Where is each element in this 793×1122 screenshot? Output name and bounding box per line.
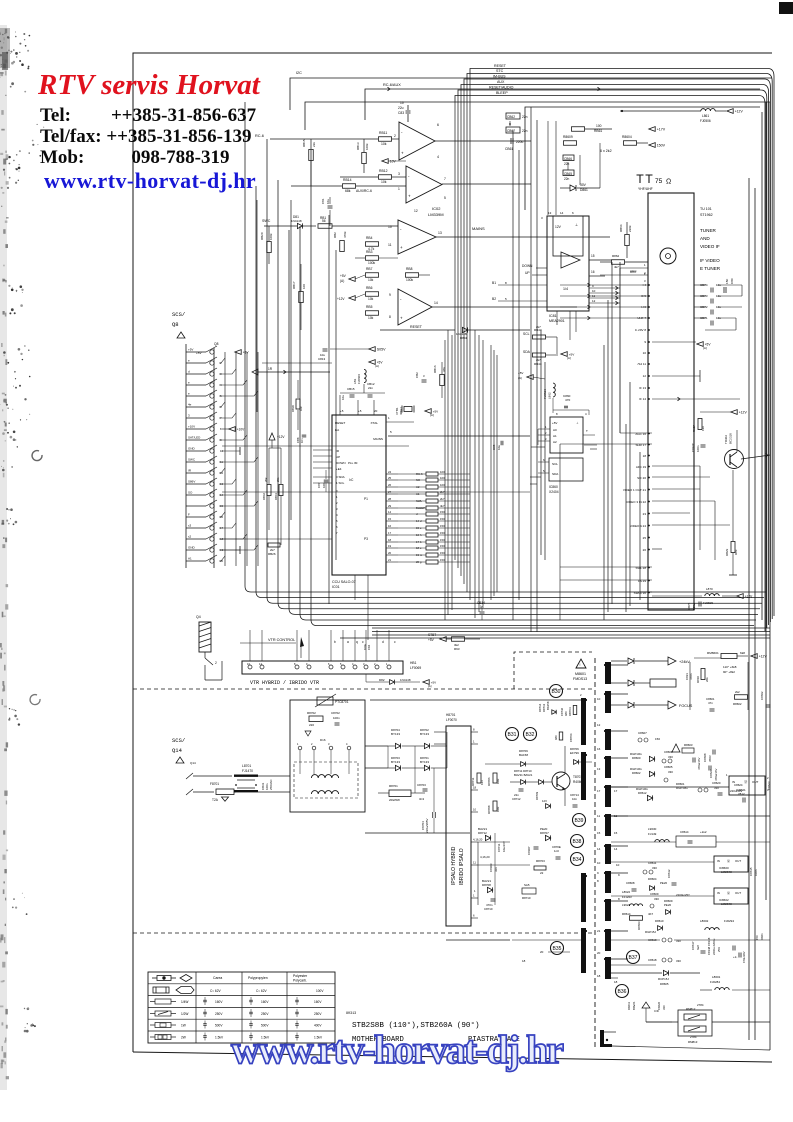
svg-text:9: 9 bbox=[592, 284, 594, 288]
svg-text:CB61: CB61 bbox=[505, 147, 513, 151]
power arrow +5V (A) sda bbox=[561, 352, 567, 357]
svg-text:SA5: SA5 bbox=[524, 883, 530, 887]
legend row 2W inner bbox=[158, 1035, 162, 1039]
svg-text:RM812: RM812 bbox=[686, 1007, 696, 1011]
svg-text:LF0070: LF0070 bbox=[446, 718, 457, 722]
pin 2 VTR strip bbox=[375, 665, 379, 669]
svg-text:IF VIDEO: IF VIDEO bbox=[700, 258, 720, 263]
svg-text:RB15: RB15 bbox=[302, 139, 306, 147]
svg-text:B30: B30 bbox=[552, 689, 561, 695]
gnd degauss bbox=[305, 731, 311, 736]
connector Q8 contact row 2 e bbox=[186, 362, 206, 364]
svg-text:B38: B38 bbox=[573, 839, 582, 845]
svg-text:100: 100 bbox=[596, 124, 602, 128]
svg-text:470: 470 bbox=[565, 398, 570, 402]
svg-text:RB7: RB7 bbox=[366, 267, 373, 271]
svg-text:SHR 17: SHR 17 bbox=[635, 443, 646, 447]
legend row 2W bbox=[155, 1035, 171, 1040]
connector Q8 contact row 7 3 bbox=[186, 417, 206, 419]
svg-text:CB15: CB15 bbox=[347, 387, 355, 391]
transistor Q TR302 BC2318 bbox=[725, 450, 744, 469]
pin 8 VTR strip bbox=[295, 665, 299, 669]
svg-text:DOWN: DOWN bbox=[336, 461, 346, 465]
svg-text:220u/40V: 220u/40V bbox=[730, 789, 742, 793]
svg-text:8: 8 bbox=[473, 728, 475, 732]
focus block bbox=[650, 679, 676, 687]
degauss coil box bbox=[290, 700, 365, 812]
svg-text:2k7: 2k7 bbox=[536, 325, 541, 329]
svg-text:D8709: D8709 bbox=[535, 791, 539, 800]
svg-text:C813: C813 bbox=[318, 357, 326, 361]
svg-text:1/4W: 1/4W bbox=[181, 1000, 188, 1004]
svg-text:100: 100 bbox=[302, 284, 306, 289]
svg-text:1: 1 bbox=[336, 495, 338, 499]
svg-text:A2: A2 bbox=[553, 440, 557, 444]
svg-text:RCP15J: RCP15J bbox=[658, 977, 669, 981]
svg-text:470n: 470n bbox=[689, 673, 693, 680]
svg-text:1: 1 bbox=[726, 773, 728, 777]
svg-text:1R: 1R bbox=[268, 367, 273, 371]
svg-text:YHF/UHF: YHF/UHF bbox=[638, 187, 653, 191]
resistor RB16 47k bbox=[440, 375, 445, 386]
svg-text:+12V: +12V bbox=[739, 411, 748, 415]
power arrow +10V connector bbox=[229, 427, 235, 432]
svg-text:470u/16V: 470u/16V bbox=[742, 951, 746, 963]
svg-text:[A]: [A] bbox=[430, 413, 434, 417]
svg-text:SAT/LED: SAT/LED bbox=[188, 436, 201, 440]
resistor R8711 vertical bbox=[477, 773, 481, 783]
degauss winding 1 bbox=[311, 775, 338, 778]
svg-text:D8708: D8708 bbox=[482, 883, 491, 887]
warning triangle 2 bbox=[672, 744, 680, 752]
svg-text:19: 19 bbox=[388, 544, 392, 548]
resistor R8602 2k2 bbox=[735, 695, 748, 700]
svg-text:e: e bbox=[188, 392, 190, 396]
wire tr302 out bbox=[736, 430, 738, 452]
svg-text:BY133: BY133 bbox=[420, 760, 429, 764]
svg-text:4k7: 4k7 bbox=[440, 504, 445, 508]
pin 16 VTR strip bbox=[248, 665, 252, 669]
capacitor CB8 10n bbox=[302, 434, 307, 436]
svg-text:C8710: C8710 bbox=[484, 907, 493, 911]
node B36 bbox=[616, 985, 629, 998]
svg-text:10: 10 bbox=[400, 101, 404, 105]
legend row 1W inner bbox=[160, 1023, 166, 1027]
wire opamp1 out bbox=[435, 140, 531, 142]
svg-text:160V: 160V bbox=[261, 1000, 269, 1004]
svg-text:8: 8 bbox=[597, 879, 599, 883]
wire video out rail bbox=[699, 466, 701, 550]
wire bus line 1 top bbox=[470, 69, 774, 617]
node B34 bbox=[571, 853, 584, 866]
legend row 1/4W bbox=[155, 999, 171, 1004]
svg-text:100n: 100n bbox=[696, 445, 700, 452]
svg-text:4: 4 bbox=[336, 513, 338, 517]
svg-text:26: 26 bbox=[388, 483, 392, 487]
tuner antenna circle bbox=[660, 248, 676, 264]
svg-text:SIF 20: SIF 20 bbox=[637, 476, 646, 480]
svg-text:24: 24 bbox=[388, 470, 392, 474]
svg-text:25: 25 bbox=[388, 476, 392, 480]
svg-text:CB706: CB706 bbox=[569, 733, 573, 742]
svg-text:150: 150 bbox=[440, 517, 445, 521]
label SA5 R8710 bbox=[522, 888, 536, 894]
op-amp IC02d bbox=[398, 289, 432, 325]
resistor RB6 10k bbox=[366, 292, 379, 297]
wire sec rail 816 bbox=[611, 815, 770, 817]
svg-text:SCL: SCL bbox=[552, 462, 558, 466]
svg-text:4: 4 bbox=[437, 155, 439, 159]
wire sda join bbox=[556, 337, 558, 354]
svg-text:VTR HYBRID / IBRIDO VTR: VTR HYBRID / IBRIDO VTR bbox=[250, 680, 319, 686]
svg-text:1: 1 bbox=[474, 889, 476, 893]
svg-text:C8608: C8608 bbox=[626, 881, 635, 885]
svg-text:MEA2901: MEA2901 bbox=[549, 319, 565, 323]
svg-text:15: 15 bbox=[388, 517, 392, 521]
wire swc bbox=[264, 225, 297, 227]
svg-text:C8611: C8611 bbox=[648, 861, 657, 865]
svg-text:13: 13 bbox=[548, 211, 552, 215]
svg-text:14: 14 bbox=[597, 847, 601, 851]
transformer core dashed line bbox=[594, 658, 596, 1048]
resistor R8614 4K7 bbox=[630, 916, 643, 921]
svg-text:100k: 100k bbox=[269, 233, 273, 240]
fuse F8701 T2A bbox=[216, 789, 234, 795]
wire opamp2 out bbox=[442, 183, 531, 185]
rm box bbox=[678, 1010, 712, 1036]
svg-text:20k: 20k bbox=[705, 677, 709, 682]
svg-text:10k: 10k bbox=[381, 142, 387, 146]
ic IC8600 LM2940 bbox=[714, 856, 748, 872]
pin 9 VTR strip bbox=[307, 665, 311, 669]
svg-text:IN: IN bbox=[717, 859, 720, 863]
svg-text:R8603: R8603 bbox=[684, 743, 693, 747]
svg-text:P1: P1 bbox=[364, 497, 368, 501]
wire b35 drop bbox=[494, 833, 496, 905]
resistor RB7 10k bbox=[366, 273, 379, 278]
resistor R862 4k7 bbox=[612, 260, 625, 265]
svg-text:1N4148: 1N4148 bbox=[400, 678, 411, 682]
power arrow +5V (A) x2404 bbox=[527, 375, 533, 380]
gnd symbol q14 bbox=[222, 797, 229, 801]
wire q4 contact bbox=[205, 652, 213, 665]
svg-text:e: e bbox=[188, 359, 190, 363]
svg-text:L9624: L9624 bbox=[622, 903, 630, 907]
svg-text:C8612: C8612 bbox=[667, 869, 671, 878]
svg-text:3n3: 3n3 bbox=[419, 797, 424, 801]
svg-text:CCU SALO-07: CCU SALO-07 bbox=[332, 580, 356, 584]
wire opamp3 out bbox=[436, 236, 610, 238]
svg-text:RB3: RB3 bbox=[366, 250, 373, 254]
svg-text:18: 18 bbox=[643, 454, 647, 458]
watermark Tel line bbox=[40, 105, 256, 127]
page frame of schematic sheet bbox=[133, 53, 772, 1052]
wire top centre verticals bbox=[547, 121, 549, 215]
svg-text:+5V: +5V bbox=[431, 681, 436, 685]
svg-text:(A): (A) bbox=[518, 376, 522, 380]
svg-text:C832C: C832C bbox=[691, 443, 695, 452]
connector Q8 contact row 10 GND bbox=[186, 450, 206, 452]
svg-text:M8601: M8601 bbox=[575, 672, 586, 676]
svg-text:100k: 100k bbox=[406, 278, 414, 282]
svg-text:80313: 80313 bbox=[346, 1012, 356, 1016]
svg-text:1/2W: 1/2W bbox=[181, 1012, 188, 1016]
svg-text:C8605: C8605 bbox=[664, 765, 673, 769]
connector Q8 contact row 1 +5V bbox=[186, 351, 206, 353]
wire extra mid-left verticals bbox=[256, 200, 258, 412]
resistor array RB21-RB28 rows bbox=[386, 473, 398, 475]
wire transformer secondary stubs bbox=[611, 664, 628, 666]
svg-text:20: 20 bbox=[597, 951, 601, 955]
svg-text:BAV21 BAV21: BAV21 BAV21 bbox=[514, 773, 533, 777]
svg-text:D8612: D8612 bbox=[638, 791, 647, 795]
wire long rows from connector bbox=[222, 445, 409, 447]
power arrow 150V bbox=[649, 143, 655, 148]
svg-text:C8614: C8614 bbox=[680, 830, 689, 834]
node B31 bbox=[506, 728, 519, 741]
svg-text:RB41: RB41 bbox=[274, 493, 278, 500]
svg-text:R83: R83 bbox=[734, 549, 738, 555]
legend row1 resistor symbol bbox=[152, 976, 176, 981]
svg-text:1k4: 1k4 bbox=[480, 780, 484, 785]
wire lower left rails bbox=[478, 841, 510, 843]
svg-text:8: 8 bbox=[505, 281, 507, 285]
capacitor CB61 220u bbox=[510, 138, 512, 144]
svg-text:2784: 2784 bbox=[690, 1035, 697, 1039]
legend row 1/2W bbox=[155, 1011, 171, 1016]
dashed boundary below VTR bbox=[133, 688, 592, 690]
wire right area verticals bbox=[619, 268, 621, 433]
svg-text:250V: 250V bbox=[261, 1012, 269, 1016]
svg-text:8: 8 bbox=[556, 412, 558, 416]
svg-text:FMDS13: FMDS13 bbox=[573, 677, 587, 681]
svg-text:2: 2 bbox=[215, 661, 217, 665]
bottom left black corner mark bbox=[600, 1030, 604, 1047]
svg-text:AFC 19: AFC 19 bbox=[636, 465, 647, 469]
svg-text:C8712: C8712 bbox=[512, 797, 521, 801]
svg-text:IN: IN bbox=[717, 891, 720, 895]
scan curl mark 2 bbox=[30, 695, 40, 705]
node B37 bbox=[627, 951, 640, 964]
svg-text:PTC8701: PTC8701 bbox=[335, 700, 349, 704]
svg-text:LM2940: LM2940 bbox=[721, 870, 732, 874]
wire right vertical 1 bbox=[748, 178, 750, 1040]
capacitor CB15 10u bbox=[350, 394, 355, 396]
svg-text:RB16: RB16 bbox=[433, 365, 437, 373]
svg-text:SO: SO bbox=[188, 491, 193, 495]
svg-text:10V: 10V bbox=[390, 160, 397, 164]
svg-text:3: 3 bbox=[336, 507, 338, 511]
resistor R8603 bbox=[682, 748, 694, 753]
connector Q8 contact row 5 e bbox=[186, 395, 206, 397]
svg-text:RB2: RB2 bbox=[333, 232, 337, 238]
svg-text:PE20: PE20 bbox=[664, 903, 671, 907]
svg-text:14: 14 bbox=[614, 847, 618, 851]
svg-text:C8617: C8617 bbox=[691, 941, 695, 950]
svg-text:FJ0506: FJ0506 bbox=[700, 119, 711, 123]
capacitor C8703 3n3 bbox=[423, 788, 428, 790]
dashed isolation boundary lower bbox=[133, 932, 592, 934]
svg-text:H8701: H8701 bbox=[446, 713, 456, 717]
svg-text:A1: A1 bbox=[553, 434, 557, 438]
svg-text:21: 21 bbox=[597, 929, 601, 933]
svg-text:47k: 47k bbox=[442, 367, 446, 372]
svg-text:6k8: 6k8 bbox=[740, 651, 745, 655]
svg-text:-: - bbox=[400, 227, 402, 232]
tuner pin 1 bbox=[620, 267, 648, 269]
svg-text:16: 16 bbox=[597, 747, 601, 751]
scan mark top right corner bbox=[779, 2, 793, 14]
connector Q8 contact row 8 +10V bbox=[186, 428, 206, 430]
svg-text:330: 330 bbox=[714, 786, 719, 790]
svg-text:100k: 100k bbox=[368, 261, 376, 265]
svg-text:RGP10G: RGP10G bbox=[676, 786, 688, 790]
svg-text:470u/16V: 470u/16V bbox=[697, 758, 701, 770]
svg-text:FJ0284: FJ0284 bbox=[710, 980, 720, 984]
resistor RB1 56 bbox=[318, 224, 332, 229]
svg-text:9: 9 bbox=[644, 340, 646, 344]
svg-text:T8701: T8701 bbox=[573, 775, 582, 779]
svg-text:(A): (A) bbox=[375, 364, 379, 368]
svg-text:150: 150 bbox=[440, 544, 445, 548]
svg-text:12V: 12V bbox=[555, 225, 562, 229]
node B30 bbox=[550, 685, 563, 698]
svg-text:10u: 10u bbox=[341, 395, 345, 400]
svg-text:23: 23 bbox=[643, 512, 647, 516]
svg-text:100: 100 bbox=[440, 476, 445, 480]
svg-text:10k: 10k bbox=[368, 316, 374, 320]
svg-text:+12V: +12V bbox=[735, 110, 744, 114]
svg-text:4K7: 4K7 bbox=[648, 912, 654, 916]
svg-text:[A]: [A] bbox=[428, 684, 432, 688]
power arrow +5V (A) tuner bbox=[697, 342, 703, 347]
wire mid vertical bundle right of opamps bbox=[512, 130, 514, 620]
svg-text:+12V: +12V bbox=[337, 297, 345, 301]
svg-text:2k2: 2k2 bbox=[735, 690, 740, 694]
svg-text:500V: 500V bbox=[215, 1024, 223, 1028]
capacitor C813 10u bbox=[323, 348, 328, 350]
resistor R8706 10R bbox=[493, 773, 497, 783]
svg-text:C8602: C8602 bbox=[760, 691, 764, 700]
svg-text:Q4: Q4 bbox=[196, 615, 201, 619]
connector Q8 contact row 12 IR bbox=[186, 472, 206, 474]
svg-text:a: a bbox=[347, 640, 349, 644]
wire degauss internal bbox=[299, 750, 301, 774]
wire bus line 5 top bbox=[458, 90, 767, 628]
svg-text:SDA: SDA bbox=[523, 350, 531, 354]
capacitor CB2 10u bbox=[422, 379, 427, 381]
svg-text:250V: 250V bbox=[314, 1012, 322, 1016]
resistor RM812 2784 bbox=[684, 1014, 706, 1020]
svg-text:D16: D16 bbox=[320, 738, 326, 742]
resistors RB42 RB41 vertical bbox=[267, 485, 271, 496]
power arrow 10V bbox=[382, 159, 388, 164]
diode BAV21 D8712 bbox=[485, 835, 490, 840]
svg-text:D8712: D8712 bbox=[478, 831, 487, 835]
transformer primary winding bar 4 bbox=[581, 928, 586, 973]
svg-text:MAINS: MAINS bbox=[472, 226, 485, 231]
svg-text:100: 100 bbox=[322, 483, 326, 488]
svg-text:F8701: F8701 bbox=[210, 782, 219, 786]
resistor RB14 68k bbox=[343, 184, 356, 189]
svg-text:+2u2: +2u2 bbox=[700, 830, 707, 834]
svg-text:22k: 22k bbox=[312, 142, 316, 147]
diode EHT 24kV bbox=[628, 658, 634, 664]
scan noise left margin bbox=[7, 37, 9, 39]
crystal XTB1 4MHz bbox=[404, 407, 412, 412]
resistor RB29 R83 bbox=[731, 542, 735, 553]
svg-text:150: 150 bbox=[440, 524, 445, 528]
wire sec rail 896 bbox=[611, 895, 714, 897]
svg-text:100n: 100n bbox=[754, 869, 758, 876]
ic IC8602 LM2940 bbox=[714, 888, 748, 904]
capacitor C8614 2u2 bbox=[676, 836, 716, 847]
svg-text:D861: D861 bbox=[580, 188, 588, 192]
resistor RB11 10k bbox=[379, 137, 392, 142]
svg-text:FS 29: FS 29 bbox=[638, 579, 646, 583]
svg-text:FJ0606: FJ0606 bbox=[357, 374, 361, 384]
svg-text:XTAL: XTAL bbox=[370, 421, 378, 425]
resistor R8703 22 bbox=[534, 866, 546, 870]
svg-text:9: 9 bbox=[389, 293, 391, 297]
resistor RB13 100k bbox=[362, 153, 367, 164]
svg-text:22n: 22n bbox=[522, 115, 528, 119]
svg-text:IR: IR bbox=[188, 469, 192, 473]
legend table grid bbox=[148, 983, 335, 985]
svg-text:/S4 11: /S4 11 bbox=[638, 362, 647, 366]
diode D81 1N4148 bbox=[297, 223, 302, 228]
connector Q8 contact row 3 d bbox=[186, 373, 206, 375]
svg-text:BY133: BY133 bbox=[391, 732, 400, 736]
svg-text:R862: R862 bbox=[612, 254, 620, 258]
svg-text:10: 10 bbox=[597, 861, 601, 865]
svg-text:2W: 2W bbox=[181, 1036, 186, 1040]
opto coupler Q4 hatched bbox=[199, 622, 211, 652]
svg-text:18: 18 bbox=[614, 980, 618, 984]
svg-text:X2404: X2404 bbox=[549, 490, 559, 494]
svg-text:6 x 2k2: 6 x 2k2 bbox=[600, 149, 612, 153]
watermark bottom URL outlined bbox=[231, 1026, 562, 1073]
svg-text:IPSALO HYBRID: IPSALO HYBRID bbox=[451, 846, 457, 885]
svg-text:D8600: D8600 bbox=[632, 756, 641, 760]
svg-text:6u8: 6u8 bbox=[696, 945, 700, 950]
transformer primary winding bar 2 bbox=[581, 752, 586, 800]
pin 1 VTR strip bbox=[387, 665, 391, 669]
svg-text:L862: L862 bbox=[548, 392, 552, 399]
connector Q8 contact row 6 4e bbox=[186, 406, 206, 408]
svg-text:IR: IR bbox=[336, 449, 340, 453]
legend row1 diamond symbol bbox=[180, 975, 192, 982]
svg-text:B39: B39 bbox=[575, 818, 584, 824]
svg-text:330: 330 bbox=[652, 866, 657, 870]
svg-text:10: 10 bbox=[616, 863, 620, 867]
svg-text:FJ1243: FJ1243 bbox=[622, 895, 632, 899]
svg-text:⊥: ⊥ bbox=[576, 421, 579, 425]
svg-text:22n: 22n bbox=[522, 129, 528, 133]
svg-text:160V: 160V bbox=[215, 1000, 223, 1004]
resistor R8604 bbox=[624, 141, 637, 146]
wire bridge rails bbox=[365, 745, 388, 747]
wire mains live bbox=[186, 773, 193, 779]
svg-text:HB1: HB1 bbox=[410, 661, 417, 665]
svg-text:AGC 16: AGC 16 bbox=[635, 432, 646, 436]
svg-text:CB66: CB66 bbox=[564, 157, 572, 161]
svg-text:RB17: RB17 bbox=[292, 281, 296, 289]
node B32 bbox=[524, 728, 537, 741]
svg-text:RB14: RB14 bbox=[343, 178, 352, 182]
resistor RB26 2k7 bbox=[268, 543, 280, 547]
svg-text:Polycarb.: Polycarb. bbox=[293, 979, 307, 983]
